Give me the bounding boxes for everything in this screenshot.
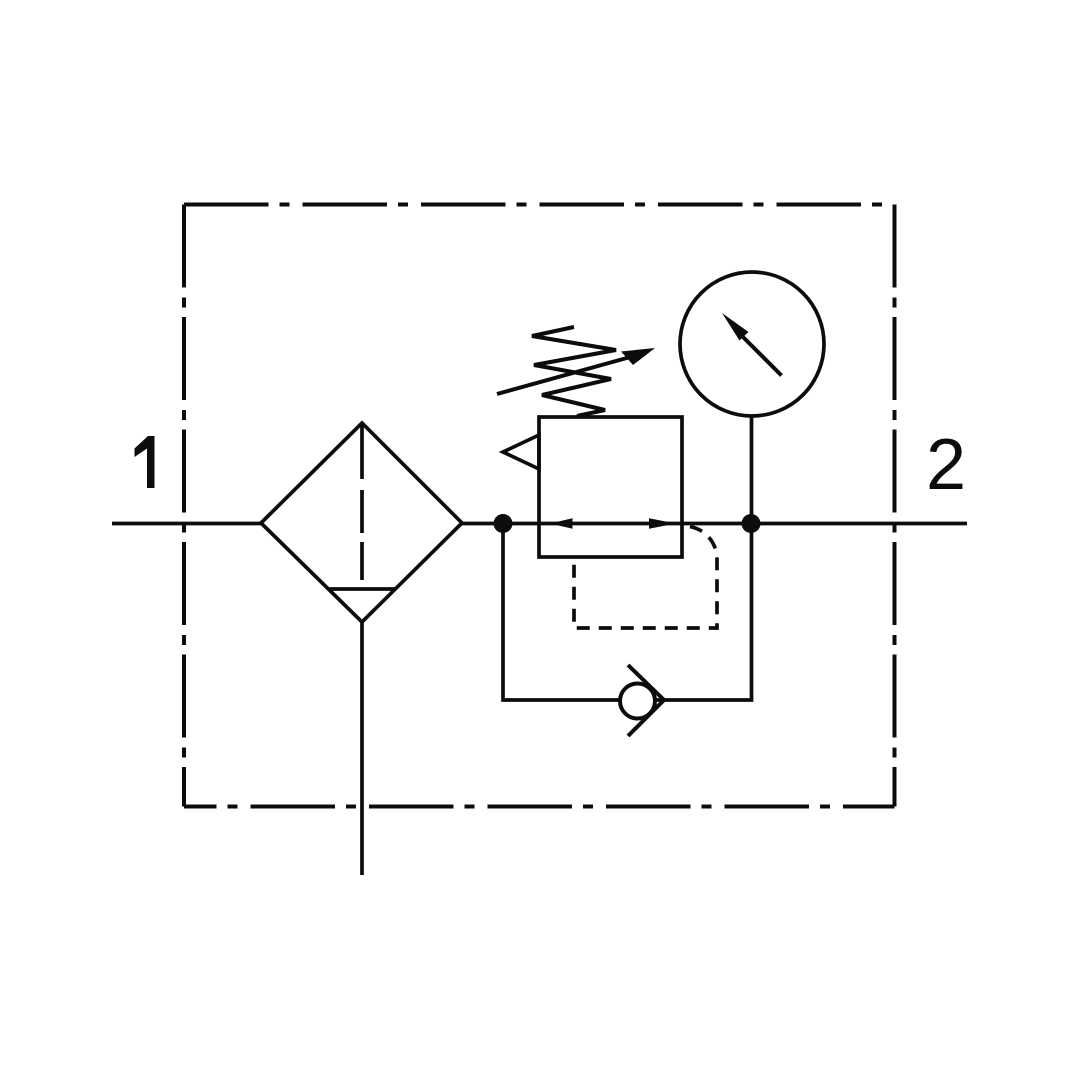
- check valve V1 seat: [628, 665, 664, 736]
- port label 1: [135, 436, 155, 488]
- svg-text:2: 2: [926, 425, 966, 505]
- pilot line (dashed) from outlet to regulator bottom: [574, 526, 717, 628]
- gauge needle: [743, 337, 782, 376]
- regulator vent triangle: [503, 435, 539, 469]
- regulator flow arrow left: [550, 518, 573, 529]
- wire: filter to regulator to port 2 main line: [462, 522, 967, 526]
- regulator flow arrow right: [649, 518, 676, 529]
- node B (junction dot, regulator outlet): [742, 514, 761, 533]
- drain line: [360, 622, 364, 875]
- regulator spring: [532, 327, 616, 416]
- node A (junction dot, filter outlet): [494, 514, 513, 533]
- pressure gauge G1 (dial): [680, 272, 824, 416]
- check valve V1 (ball): [620, 684, 655, 719]
- filter F1 (diamond body): [261, 423, 462, 622]
- wire: bypass branch: [503, 524, 752, 701]
- filter F1 element (dashed centre line): [360, 423, 364, 580]
- regulator U1 body: [539, 417, 682, 557]
- enclosure boundary (dash-dot frame): [184, 205, 895, 807]
- gauge stem: [750, 416, 754, 523]
- wire: port 1 lead-in to filter: [112, 522, 261, 526]
- filter F1 separator chord: [328, 587, 396, 591]
- regulator adjustment arrow: [497, 356, 634, 394]
